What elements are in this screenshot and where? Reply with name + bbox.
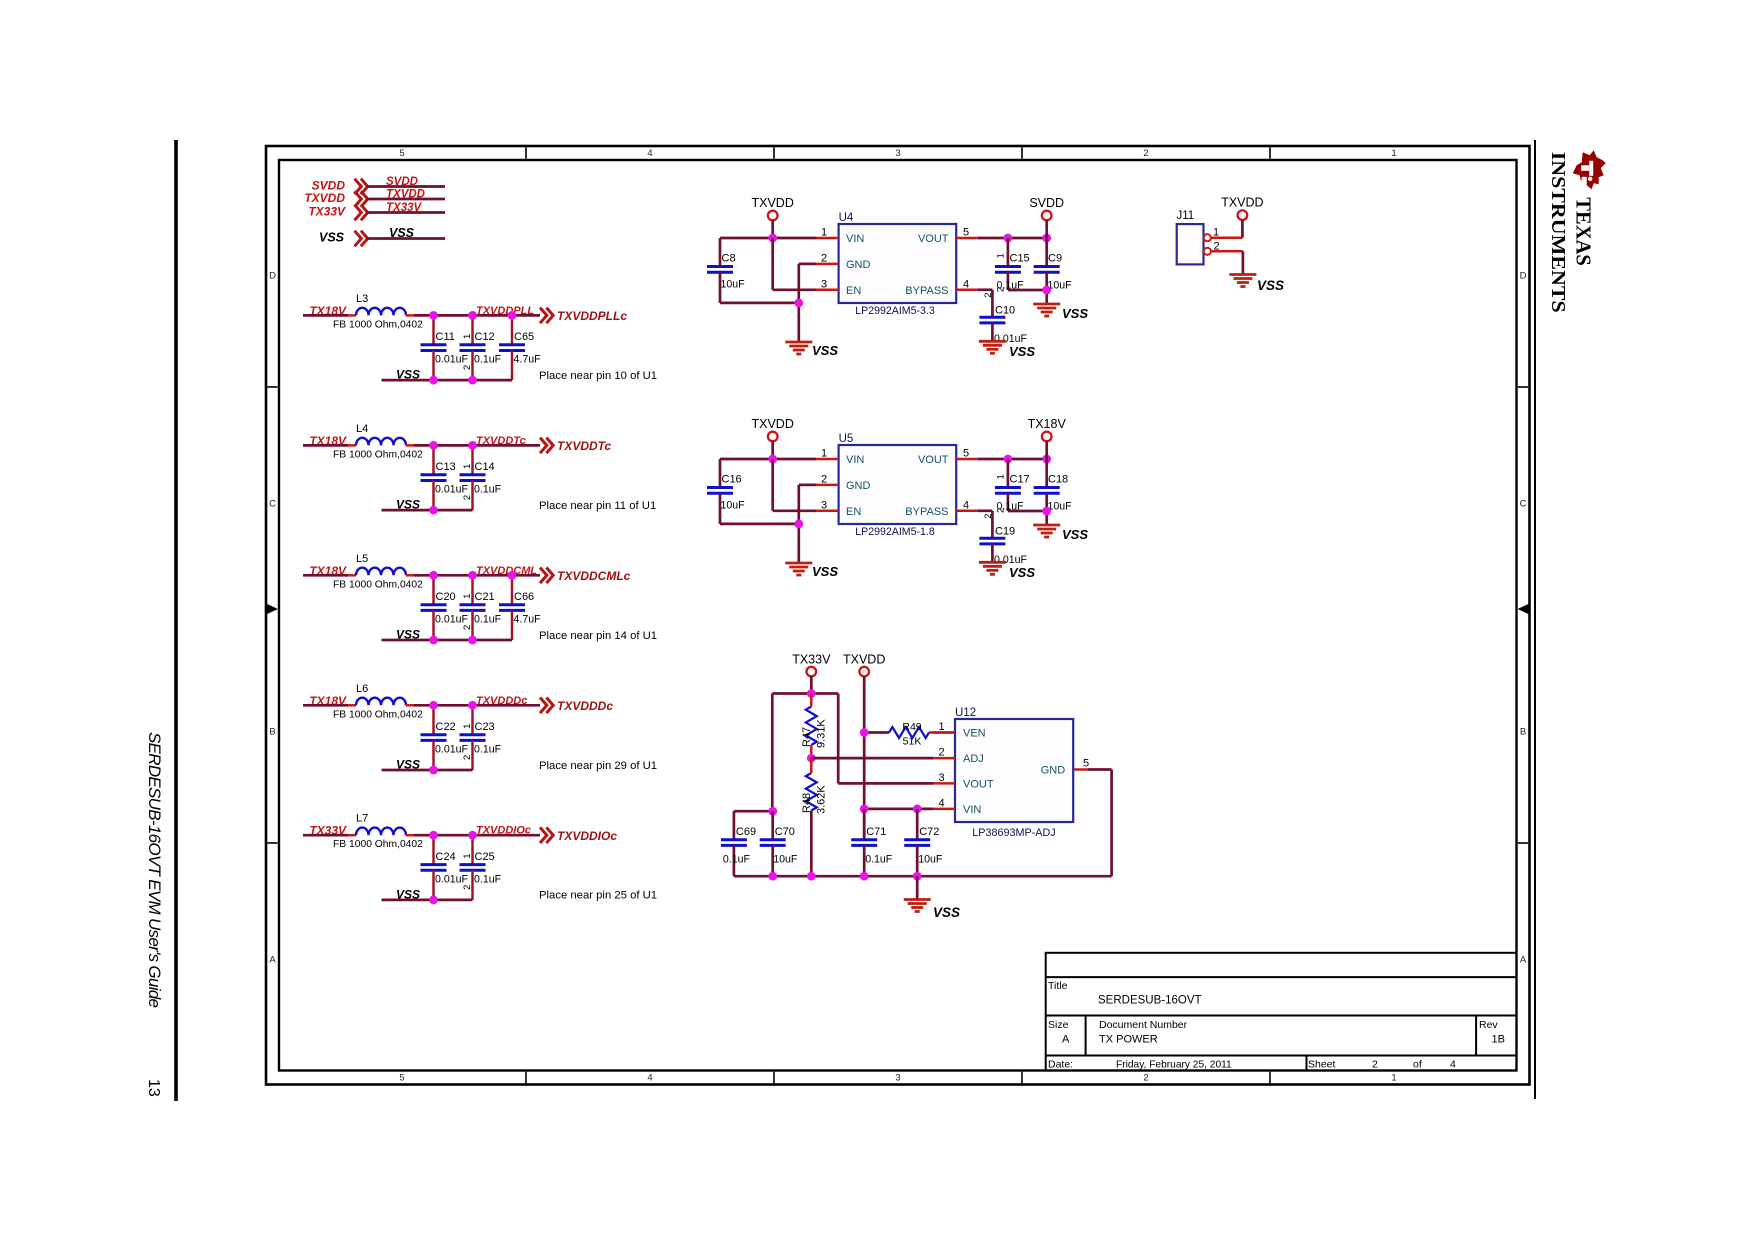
node at x=512 <box>508 571 517 580</box>
capacitor C69 <box>721 811 756 876</box>
capacitor C13 <box>421 445 469 510</box>
wire <box>303 444 348 447</box>
IC U12 LP38693MP-ADJ <box>955 707 1073 839</box>
svg-text:C17: C17 <box>1010 474 1030 486</box>
junction VOUT <box>1004 455 1013 464</box>
ferrite bead L7 <box>356 828 406 836</box>
junction VSS rail <box>768 872 777 881</box>
svg-text:VIN: VIN <box>963 804 981 816</box>
svg-text:C24: C24 <box>436 851 456 863</box>
svg-text:SERDESUB-16OVT EVM User's Guid: SERDESUB-16OVT EVM User's Guide <box>145 732 164 1008</box>
svg-text:C72: C72 <box>919 826 939 838</box>
node at x=433.5 <box>429 571 438 580</box>
port circle TX18V <box>1042 432 1052 442</box>
pin stub R48.1 <box>810 758 813 773</box>
svg-text:3: 3 <box>938 772 944 784</box>
svg-text:R47: R47 <box>801 727 813 747</box>
junction on VSS rail <box>429 376 438 385</box>
capacitor C22 <box>421 705 469 770</box>
wire VIN rail <box>720 237 816 240</box>
svg-text:Place near pin 10 of U1: Place near pin 10 of U1 <box>539 370 657 382</box>
node at x=433.5 <box>429 441 438 450</box>
J11 pin 1 circle <box>1204 234 1211 241</box>
svg-text:5: 5 <box>399 1073 404 1084</box>
junction TXVDD R49 <box>860 728 869 737</box>
wire BYPASS <box>978 509 992 512</box>
port circle TXVDD <box>1238 210 1248 220</box>
svg-text:0.1uF: 0.1uF <box>474 484 502 496</box>
capacitor C16 <box>707 459 745 524</box>
svg-text:0.1uF: 0.1uF <box>474 613 502 625</box>
svg-text:FB 1000 Ohm,0402: FB 1000 Ohm,0402 <box>333 839 423 850</box>
capacitor C22 plates <box>421 735 447 741</box>
svg-text:Size: Size <box>1048 1019 1069 1031</box>
svg-text:TXVDD: TXVDD <box>843 653 885 667</box>
svg-text:4: 4 <box>647 148 652 159</box>
wire <box>303 704 348 707</box>
svg-text:ADJ: ADJ <box>963 753 984 765</box>
wire VSS rail <box>382 899 473 902</box>
svg-text:C25: C25 <box>475 851 495 863</box>
wire R49 in <box>864 731 889 734</box>
svg-text:2: 2 <box>462 495 473 500</box>
capacitor C17 plates <box>995 488 1021 494</box>
capacitor C66 <box>499 575 541 640</box>
capacitor C19 <box>979 511 1027 566</box>
pin stub R47.1 <box>810 694 813 707</box>
wire GND drop <box>797 485 800 563</box>
resistor R48 <box>806 773 817 811</box>
wire VOUT <box>978 237 1047 240</box>
wire net TXVDDTc <box>414 444 540 447</box>
node at x=433.5 <box>429 831 438 840</box>
svg-text:51K: 51K <box>903 736 922 748</box>
svg-text:1: 1 <box>462 464 473 469</box>
svg-text:10uF: 10uF <box>1048 280 1073 292</box>
svg-text:3: 3 <box>821 278 827 290</box>
svg-text:SERDESUB-16OVT: SERDESUB-16OVT <box>1098 995 1202 1007</box>
junction on VSS rail <box>429 506 438 515</box>
junction on VSS rail <box>429 766 438 775</box>
svg-text:VSS: VSS <box>812 343 838 358</box>
svg-text:1: 1 <box>821 227 827 239</box>
svg-text:VSS: VSS <box>1062 306 1088 321</box>
svg-text:A: A <box>1520 955 1527 966</box>
svg-text:1: 1 <box>462 334 473 339</box>
svg-text:C22: C22 <box>436 721 456 733</box>
svg-text:C19: C19 <box>995 525 1015 537</box>
wire <box>303 574 348 577</box>
svg-text:U4: U4 <box>839 212 854 224</box>
svg-text:EN: EN <box>846 506 861 518</box>
junction VIN <box>768 455 777 464</box>
input port chevron TXVDD <box>355 191 368 207</box>
junction on VSS rail <box>429 896 438 905</box>
svg-text:GND: GND <box>846 259 871 271</box>
svg-text:VOUT: VOUT <box>918 454 949 466</box>
capacitor C9 <box>1034 238 1072 304</box>
junction VSS rail <box>860 872 869 881</box>
pin stub L3.1 <box>348 314 356 317</box>
svg-text:0.01uF: 0.01uF <box>435 743 469 755</box>
junction cap tie <box>1042 507 1051 516</box>
port circle TXVDD <box>768 432 778 442</box>
pin 5 stub <box>956 458 978 461</box>
svg-text:0.01uF: 0.01uF <box>435 354 469 366</box>
wire EN tie <box>771 459 774 511</box>
frame tick left <box>267 842 277 844</box>
svg-text:VSS: VSS <box>1009 344 1035 359</box>
IC U5 LP2992AIM5-1.8 <box>839 433 957 538</box>
svg-text:2: 2 <box>821 473 827 485</box>
svg-text:VSS: VSS <box>396 368 420 382</box>
svg-text:TXVDD: TXVDD <box>386 189 425 201</box>
wire C69-C70 tie <box>734 810 773 813</box>
svg-text:L5: L5 <box>356 553 368 565</box>
svg-text:Place near pin 25 of U1: Place near pin 25 of U1 <box>539 890 657 902</box>
junction C70 top <box>768 807 777 816</box>
title block <box>1046 953 1517 1071</box>
ferrite bead L6 <box>356 698 406 706</box>
wire VSS rail <box>382 379 513 382</box>
svg-text:TX18V: TX18V <box>1028 417 1067 431</box>
pin 1 stub <box>816 458 839 461</box>
svg-text:L4: L4 <box>356 423 368 435</box>
svg-text:Place near pin 29 of U1: Place near pin 29 of U1 <box>539 760 657 772</box>
svg-text:2: 2 <box>938 747 944 759</box>
svg-text:SVDD: SVDD <box>1029 196 1064 210</box>
node at x=433.5 <box>429 701 438 710</box>
pin 5 stub <box>1073 768 1088 771</box>
svg-text:1B: 1B <box>1492 1034 1505 1046</box>
svg-text:C71: C71 <box>866 826 886 838</box>
junction VOUT <box>1004 234 1013 243</box>
port circle TXVDD <box>859 667 869 677</box>
svg-text:TX33V: TX33V <box>386 202 422 214</box>
pin 4 stub <box>956 289 978 292</box>
svg-text:B: B <box>269 727 275 738</box>
pin stub R47.2 <box>810 745 813 758</box>
svg-text:C9: C9 <box>1048 253 1062 265</box>
svg-text:C10: C10 <box>995 304 1015 316</box>
junction on VSS rail <box>429 636 438 645</box>
J11 pin 2 circle <box>1204 248 1211 255</box>
frame tick bottom <box>773 1072 775 1084</box>
wire <box>303 834 348 837</box>
svg-text:INSTRUMENTS: INSTRUMENTS <box>1547 152 1569 313</box>
svg-text:C20: C20 <box>436 591 456 603</box>
pin 4 stub <box>956 510 978 513</box>
svg-text:VSS: VSS <box>396 887 420 901</box>
svg-text:1: 1 <box>462 724 473 729</box>
svg-text:1: 1 <box>462 854 473 859</box>
svg-text:2: 2 <box>462 755 473 760</box>
capacitor C12 plates <box>460 345 486 351</box>
svg-text:VSS: VSS <box>933 905 960 920</box>
svg-text:SVDD: SVDD <box>386 176 418 188</box>
svg-text:2: 2 <box>983 514 994 519</box>
wire port stem <box>771 220 774 238</box>
pin 3 stub <box>816 510 839 513</box>
capacitor C25 plates <box>460 865 486 871</box>
junction VIN <box>768 234 777 243</box>
wire TXVDD drop <box>863 676 866 840</box>
svg-text:TXVDD: TXVDD <box>752 196 794 210</box>
wire pin 2 drop <box>1242 251 1245 274</box>
ferrite bead L5 <box>356 568 406 576</box>
wire TX33V rail <box>772 692 838 695</box>
svg-text:0.1uF: 0.1uF <box>474 873 502 885</box>
svg-text:1: 1 <box>938 721 944 733</box>
wire SVDD <box>367 185 445 188</box>
svg-text:TXVDDCML: TXVDDCML <box>476 565 537 577</box>
wire VOUT drop <box>837 694 840 784</box>
wire GND drop <box>797 264 800 342</box>
svg-text:TXVDD: TXVDD <box>752 417 794 431</box>
svg-text:C13: C13 <box>436 461 456 473</box>
wire cap gnd <box>720 302 799 305</box>
capacitor C72 plates <box>904 840 930 846</box>
capacitor C71 plates <box>851 840 877 846</box>
svg-text:U12: U12 <box>955 707 976 719</box>
svg-text:C66: C66 <box>514 591 534 603</box>
svg-text:2: 2 <box>983 293 994 298</box>
svg-text:5: 5 <box>1083 758 1089 770</box>
svg-text:C12: C12 <box>475 331 495 343</box>
pin stub L5.1 <box>348 574 356 577</box>
capacitor C70 plates <box>760 840 786 846</box>
frame center arrow right <box>1518 604 1530 615</box>
wire VSS rail <box>382 509 473 512</box>
ferrite bead L3 <box>356 308 406 316</box>
resistor R49 <box>889 727 929 738</box>
pin stub L7.2 <box>406 834 414 837</box>
ground VSS <box>1229 275 1256 287</box>
svg-text:Rev: Rev <box>1479 1019 1498 1031</box>
capacitor C18 plates <box>1034 488 1060 494</box>
node at x=472.5 <box>468 701 477 710</box>
wire TX33V <box>367 211 445 214</box>
wire port stem <box>771 441 774 459</box>
svg-text:TX POWER: TX POWER <box>1099 1034 1158 1046</box>
svg-text:10uF: 10uF <box>721 279 746 291</box>
svg-text:2: 2 <box>1143 1073 1148 1084</box>
wire VSS rail <box>734 875 1112 878</box>
svg-text:FB 1000 Ohm,0402: FB 1000 Ohm,0402 <box>333 579 423 590</box>
svg-text:0.1uF: 0.1uF <box>865 854 893 866</box>
capacitor C12 <box>460 315 502 380</box>
svg-text:VSS: VSS <box>396 628 420 642</box>
pin stub L6.2 <box>406 704 414 707</box>
capacitor C23 plates <box>460 735 486 741</box>
svg-text:VEN: VEN <box>963 728 986 740</box>
svg-text:VSS: VSS <box>319 231 345 245</box>
svg-text:Document Number: Document Number <box>1099 1019 1188 1031</box>
svg-text:VIN: VIN <box>846 233 864 245</box>
junction C72 top <box>913 805 922 814</box>
svg-text:BYPASS: BYPASS <box>905 285 948 297</box>
svg-text:4.7uF: 4.7uF <box>514 613 542 625</box>
svg-text:4.7uF: 4.7uF <box>514 354 542 366</box>
ground VSS <box>785 342 812 354</box>
svg-text:A: A <box>1062 1034 1070 1046</box>
svg-text:VOUT: VOUT <box>918 233 949 245</box>
svg-text:5: 5 <box>399 148 404 159</box>
capacitor C11 <box>421 315 469 380</box>
svg-text:2: 2 <box>996 508 1007 513</box>
svg-text:Place near pin 14 of U1: Place near pin 14 of U1 <box>539 630 657 642</box>
frame tick top <box>525 147 527 159</box>
pin stub L3.2 <box>406 314 414 317</box>
svg-text:C8: C8 <box>722 253 736 265</box>
wire net TXVDDDc <box>414 704 540 707</box>
pin 5 stub <box>956 237 978 240</box>
capacitor C8 <box>707 238 745 303</box>
port circle SVDD <box>1042 211 1052 221</box>
junction cap tie <box>1042 286 1051 295</box>
svg-text:Date:: Date: <box>1048 1059 1073 1071</box>
capacitor C10 plates <box>979 317 1005 323</box>
wire VIN rail <box>720 458 816 461</box>
wire VSS rail <box>382 639 513 642</box>
svg-text:C14: C14 <box>475 461 495 473</box>
capacitor C24 plates <box>421 865 447 871</box>
wire GND <box>799 484 816 487</box>
ground VSS bypass <box>979 341 1006 353</box>
svg-text:0.1uF: 0.1uF <box>723 854 751 866</box>
svg-text:FB 1000 Ohm,0402: FB 1000 Ohm,0402 <box>333 709 423 720</box>
wire VSS rail <box>382 769 473 772</box>
input port chevron TX33V <box>355 205 368 221</box>
pin 3 stub <box>816 289 839 292</box>
wire left drop <box>771 694 774 812</box>
IC U4 LP2992AIM5-3.3 <box>839 212 957 317</box>
svg-text:Title: Title <box>1048 980 1068 992</box>
svg-text:2: 2 <box>996 287 1007 292</box>
svg-text:C: C <box>269 499 276 510</box>
capacitor C70 <box>760 811 798 876</box>
capacitor C8 plates <box>707 267 733 273</box>
wire TXVDD stem <box>1241 220 1244 238</box>
svg-text:2: 2 <box>1143 148 1148 159</box>
capacitor C15 <box>995 238 1030 292</box>
svg-text:R48: R48 <box>801 793 813 813</box>
svg-text:5: 5 <box>963 227 969 239</box>
wire EN tie <box>771 238 774 290</box>
svg-text:0.1uF: 0.1uF <box>474 743 502 755</box>
svg-text:FB 1000 Ohm,0402: FB 1000 Ohm,0402 <box>333 449 423 460</box>
svg-text:4: 4 <box>963 278 969 290</box>
svg-text:C16: C16 <box>722 474 742 486</box>
capacitor C13 plates <box>421 475 447 481</box>
pin 2 stub <box>816 263 839 266</box>
frame tick top <box>1021 147 1023 159</box>
svg-text:2: 2 <box>462 365 473 370</box>
wire port stem <box>1045 441 1048 459</box>
svg-text:TXVDD: TXVDD <box>304 191 345 205</box>
capacitor C14 plates <box>460 475 486 481</box>
svg-text:10uF: 10uF <box>1048 501 1073 513</box>
svg-text:4: 4 <box>963 499 969 511</box>
svg-text:VSS: VSS <box>396 498 420 512</box>
junction VOUT 2 <box>1042 234 1051 243</box>
output port chevron TXVDDTc <box>540 438 553 454</box>
svg-text:Place near pin 11 of U1: Place near pin 11 of U1 <box>539 500 656 512</box>
pin 3 stub <box>933 782 955 785</box>
svg-text:C70: C70 <box>775 826 795 838</box>
right page rule <box>1534 140 1536 1099</box>
svg-text:R49: R49 <box>902 721 921 733</box>
svg-text:1: 1 <box>1391 1073 1396 1084</box>
svg-text:LP2992AIM5-1.8: LP2992AIM5-1.8 <box>855 526 935 538</box>
frame tick right <box>1518 386 1528 388</box>
wire VOUT <box>838 782 933 785</box>
junction C71 top <box>860 805 869 814</box>
pin 4 stub <box>933 808 955 811</box>
svg-text:U5: U5 <box>839 433 854 445</box>
pin 2 stub <box>816 484 839 487</box>
svg-text:D: D <box>1520 271 1527 282</box>
capacitor C23 <box>460 705 502 770</box>
svg-text:VIN: VIN <box>846 454 864 466</box>
wire cap tie <box>1008 510 1047 513</box>
svg-text:0.01uF: 0.01uF <box>435 613 469 625</box>
frame tick bottom <box>525 1072 527 1084</box>
wire <box>303 314 348 317</box>
junction GND <box>794 520 803 529</box>
pin stub VEN <box>929 731 955 734</box>
wire VOUT <box>978 458 1047 461</box>
frame tick right <box>1518 842 1528 844</box>
input port chevron SVDD <box>355 179 368 195</box>
svg-text:L7: L7 <box>356 813 368 825</box>
svg-text:C: C <box>1520 499 1527 510</box>
svg-text:B: B <box>1520 727 1526 738</box>
svg-text:L3: L3 <box>356 293 368 305</box>
svg-text:10uF: 10uF <box>773 854 798 866</box>
ground VSS right <box>1033 304 1060 316</box>
svg-text:TX33V: TX33V <box>308 205 346 219</box>
capacitor C65 plates <box>499 345 525 351</box>
frame outer border <box>266 146 1530 1085</box>
svg-text:TXVDDPLL: TXVDDPLL <box>476 305 534 317</box>
capacitor C20 plates <box>421 605 447 611</box>
svg-text:0.1uF: 0.1uF <box>474 354 502 366</box>
node at x=472.5 <box>468 441 477 450</box>
svg-text:EN: EN <box>846 285 861 297</box>
svg-text:FB 1000 Ohm,0402: FB 1000 Ohm,0402 <box>333 319 423 330</box>
pin 2 stub <box>933 757 955 760</box>
junction on VSS rail <box>468 636 477 645</box>
capacitor C72 <box>904 809 943 876</box>
svg-text:VSS: VSS <box>389 226 415 240</box>
svg-text:13: 13 <box>145 1079 162 1097</box>
ground VSS bypass <box>979 562 1006 574</box>
junction VOUT 2 <box>1042 455 1051 464</box>
pin 1 stub <box>816 237 839 240</box>
capacitor C21 plates <box>460 605 486 611</box>
node at x=472.5 <box>468 831 477 840</box>
svg-text:of: of <box>1413 1059 1422 1071</box>
svg-text:C65: C65 <box>514 331 534 343</box>
capacitor C69 plates <box>721 840 747 846</box>
svg-text:GND: GND <box>846 480 871 492</box>
input port chevron VSS <box>355 231 368 247</box>
svg-text:VSS: VSS <box>1257 278 1284 293</box>
junction VSS rail <box>913 872 922 881</box>
capacitor C21 <box>460 575 502 640</box>
svg-text:1: 1 <box>462 594 473 599</box>
